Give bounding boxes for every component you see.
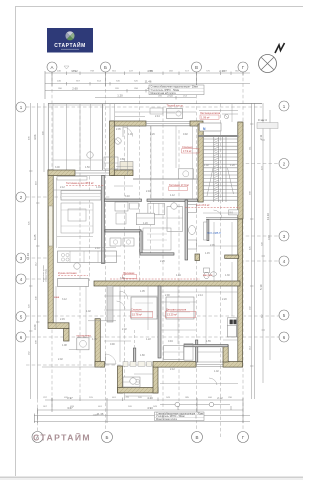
- mid section upper dim row: [115, 111, 196, 113]
- svg-text:11.46: 11.46: [97, 412, 104, 416]
- svg-text:0.90: 0.90: [110, 343, 115, 346]
- logo СТАРТАЙМ box: [47, 28, 93, 53]
- top dimension segment labels: [57, 71, 239, 98]
- stairs cut hatch strip: [214, 138, 219, 200]
- small marker near top bubble: [64, 66, 69, 69]
- left grid bubble 2: [16, 192, 26, 202]
- bedroom top closet: [150, 108, 163, 114]
- window bottom wall: [196, 362, 223, 367]
- left grid bubble 3: [16, 253, 26, 263]
- interior wall bottom mid vertical: [133, 348, 135, 362]
- svg-text:13.10: 13.10: [266, 213, 270, 220]
- left grid bubble 5: [16, 312, 26, 322]
- svg-text:2.14: 2.14: [198, 294, 203, 297]
- door tag circle 1: [115, 138, 121, 144]
- hall closet: [204, 222, 207, 240]
- svg-text:2.90: 2.90: [165, 294, 170, 297]
- svg-text:3.20: 3.20: [33, 324, 37, 330]
- door tag circle 4: [74, 263, 80, 269]
- right grid bubble 4: [279, 256, 289, 266]
- wall bottom-right corner: [223, 362, 243, 368]
- desk cluster room2: [115, 202, 128, 211]
- stairwell right wall: [238, 122, 243, 219]
- window top-left: [75, 171, 111, 176]
- right dimension segment labels: [250, 146, 271, 350]
- door swing below mid wall 2: [117, 301, 125, 309]
- svg-text:СТАРТАЙМ: СТАРТАЙМ: [33, 432, 91, 443]
- wall mid-top left vertical: [110, 121, 115, 176]
- svg-text:1.55: 1.55: [206, 340, 211, 343]
- roof outline line: [48, 103, 262, 105]
- svg-text:2.12: 2.12: [170, 368, 175, 371]
- top grid bubble Г: [238, 62, 248, 72]
- window left wall: [49, 206, 53, 246]
- svg-text:2.11: 2.11: [259, 134, 263, 140]
- interior wall vertical bottom rooms: [158, 286, 161, 358]
- svg-text:3.12: 3.12: [62, 298, 67, 301]
- stair stringer lines: [214, 137, 226, 202]
- svg-text:2.44: 2.44: [155, 115, 160, 118]
- red label living room: [66, 181, 104, 185]
- svg-text:Лестница клетка: Лестница клетка: [200, 111, 221, 115]
- toilet hall wc: [204, 268, 210, 273]
- bottom grid bubble Г: [238, 432, 249, 443]
- red label stairs top: [200, 111, 221, 115]
- tick marks clusters: [29, 72, 265, 419]
- wall left bottom corner step: [48, 323, 69, 329]
- stair head dim lines: [199, 110, 238, 112]
- right grid bubble 1: [279, 101, 289, 111]
- door tag circle 5: [130, 378, 136, 384]
- svg-text:17.9 м²: 17.9 м²: [183, 149, 192, 153]
- bedroom top bed: [167, 109, 183, 119]
- interior wall kitchen top: [133, 178, 198, 180]
- bottom grid bubble Б: [102, 432, 113, 443]
- svg-text:Б: Б: [106, 435, 109, 440]
- interior wall hall vertical: [207, 220, 209, 241]
- door swing bedroom top: [123, 127, 133, 137]
- svg-text:3.67: 3.67: [67, 406, 73, 410]
- extra faint furniture lines: [61, 197, 190, 313]
- hall label box: [229, 210, 239, 215]
- svg-text:3.05: 3.05: [120, 277, 125, 280]
- stairwell left wall: [198, 124, 203, 202]
- interior dimension strings: [53, 104, 238, 396]
- terrace edge line bottom-left: [42, 366, 100, 368]
- kitchen island: [58, 279, 89, 287]
- wall mid-top right part: [190, 121, 203, 126]
- svg-text:4.06: 4.06: [33, 134, 37, 140]
- svg-text:2.45: 2.45: [60, 318, 65, 321]
- wall left upper (terrace edge): [47, 103, 49, 171]
- svg-text:2.40: 2.40: [146, 190, 151, 193]
- right top small annotation: [257, 118, 278, 129]
- svg-text:сан узел: сан узел: [203, 274, 213, 277]
- svg-text:1.80: 1.80: [140, 354, 145, 357]
- bath fixtures room2: [110, 238, 121, 246]
- svg-text:1.20: 1.20: [117, 94, 123, 98]
- interior wall vestibule vertical: [196, 340, 198, 362]
- washbasin hall wc: [211, 272, 217, 276]
- svg-text:1.02: 1.02: [86, 310, 91, 313]
- svg-text:2.26: 2.26: [150, 133, 155, 136]
- svg-text:3.40: 3.40: [125, 195, 130, 198]
- bedroom 2 bed: [131, 297, 157, 319]
- svg-text:13.20 м²: 13.20 м²: [167, 313, 177, 317]
- furniture appliances top-left of kitchen: [104, 157, 118, 169]
- wall piece left of hall: [195, 254, 200, 261]
- svg-text:2.12: 2.12: [60, 186, 65, 189]
- furniture rug/table living room: [61, 203, 93, 233]
- svg-text:1.04: 1.04: [96, 186, 101, 189]
- svg-text:0.94: 0.94: [168, 340, 173, 343]
- interior wall horizontal hallway: [105, 199, 142, 201]
- tall cabinet vestibule: [184, 344, 193, 361]
- bottom grid bubble В: [192, 432, 203, 443]
- svg-text:Детская спальня: Детская спальня: [166, 308, 187, 312]
- red label hallway: [169, 183, 190, 190]
- svg-text:Спальня: Спальня: [182, 145, 193, 149]
- svg-text:1.30: 1.30: [225, 274, 230, 277]
- svg-text:В: В: [195, 435, 198, 440]
- grid dashed horizontals: [26, 107, 279, 365]
- bottom symbol circle 2: [209, 402, 214, 407]
- svg-text:1.02: 1.02: [214, 370, 219, 373]
- bedroom 3 bed: [166, 297, 194, 319]
- stairs treads: [203, 139, 238, 200]
- left dimension segment labels: [28, 131, 47, 355]
- tall cabinets right wall: [230, 320, 233, 325]
- wardrobe right of living: [167, 207, 183, 232]
- bed room2: [136, 213, 154, 225]
- porch bench: [123, 377, 140, 387]
- red dashed mid line: [110, 278, 200, 280]
- door swing hall to stairs: [214, 210, 223, 218]
- top annotation box: [149, 85, 204, 95]
- svg-text:1.20: 1.20: [143, 222, 148, 225]
- svg-text:2.20: 2.20: [222, 298, 227, 301]
- svg-text:1.45: 1.45: [205, 252, 210, 255]
- interior wall room2 horizontal low: [140, 253, 174, 255]
- svg-text:4.20: 4.20: [147, 396, 153, 400]
- svg-text:2.05: 2.05: [210, 244, 215, 247]
- wall bathroom bottom (thin): [206, 218, 238, 220]
- svg-text:постирочная: постирочная: [77, 335, 92, 338]
- svg-text:СТАРТАЙМ: СТАРТАЙМ: [54, 41, 86, 49]
- stairs direction arrows: [207, 168, 213, 196]
- bottom annotation box: [155, 412, 205, 421]
- svg-text:3.00: 3.00: [55, 166, 60, 169]
- red label kitchen: [58, 271, 88, 275]
- bottom symbol circle 1: [175, 402, 180, 407]
- svg-text:11.46: 11.46: [145, 80, 152, 84]
- right grid bubble 6: [279, 332, 289, 342]
- svg-text:1.05: 1.05: [140, 290, 145, 293]
- logo text: [54, 41, 86, 50]
- sheet top border: [15, 6, 303, 8]
- red label bedroom 2: [131, 308, 153, 318]
- svg-text:0 зак 4: 0 зак 4: [258, 118, 267, 122]
- dining table: [143, 228, 171, 250]
- washer bottom-left: [77, 338, 89, 350]
- shaft wall below mid: [107, 286, 113, 322]
- svg-text:1.18: 1.18: [128, 133, 133, 136]
- wall top-left horizontal right part: [111, 170, 133, 176]
- interior wall vertical center: [102, 176, 105, 264]
- wall stub right bottom: [223, 345, 228, 362]
- furniture TV unit: [57, 177, 87, 181]
- wall vertical center-bottom (kitchen right): [95, 319, 100, 367]
- appliance in top room: [178, 169, 193, 179]
- top grid bubble Б: [101, 62, 111, 72]
- bottom dimension segment labels: [43, 397, 232, 416]
- door swing hall bottom: [209, 378, 217, 385]
- svg-text:1.44: 1.44: [176, 274, 181, 277]
- grid dashed verticals: [38, 72, 244, 437]
- bottom dimension labels: [67, 396, 223, 416]
- svg-text:1.12: 1.12: [170, 194, 175, 197]
- svg-text:1.09 м²: 1.09 м²: [201, 115, 210, 119]
- svg-text:Б: Б: [104, 65, 107, 70]
- entrance door leaf: [105, 363, 116, 365]
- mid section upper left verticals: [109, 104, 111, 121]
- svg-text:15.78 м²: 15.78 м²: [132, 313, 142, 317]
- door tag circle 2: [87, 152, 93, 158]
- top dimension ticks: [45, 71, 243, 99]
- svg-text:Гостиная-кухня 38.5 м²: Гостиная-кухня 38.5 м²: [66, 181, 94, 185]
- interior wall bathroom left: [185, 200, 188, 260]
- interior wall vestibule horizontal: [184, 345, 228, 347]
- svg-text:А: А: [50, 65, 53, 70]
- svg-text:1.20: 1.20: [230, 164, 235, 167]
- stair landing dark edge: [199, 135, 239, 137]
- furniture sofa living room: [61, 191, 101, 201]
- svg-text:Спальня: Спальня: [131, 308, 142, 312]
- porch left wall: [118, 366, 123, 393]
- wall bottom horizontal left of porch: [95, 362, 105, 368]
- WALLS: [48, 103, 243, 393]
- left grid bubble 1: [16, 102, 26, 112]
- svg-text:стяжка 50мм: стяжка 50мм: [46, 268, 48, 282]
- red label bedroom top: [182, 145, 200, 153]
- door tag circle 3: [171, 203, 177, 209]
- bathroom fixtures: [188, 205, 197, 213]
- svg-text:зона: зона: [54, 296, 60, 299]
- svg-text:2.02: 2.02: [122, 328, 127, 331]
- shelf room2: [148, 203, 165, 215]
- svg-text:1.70: 1.70: [124, 396, 129, 399]
- svg-text:2.12: 2.12: [217, 396, 223, 400]
- svg-text:2.60: 2.60: [72, 87, 78, 91]
- svg-text:1.02: 1.02: [204, 164, 209, 167]
- svg-text:2.25: 2.25: [160, 260, 165, 263]
- red label small mid: [123, 272, 137, 278]
- bottom dimension lines: [34, 400, 250, 422]
- svg-text:холл 8.6 м²: холл 8.6 м²: [196, 203, 210, 207]
- svg-text:В: В: [195, 65, 198, 70]
- svg-text:2.05: 2.05: [116, 128, 121, 131]
- top grid bubble А: [47, 62, 57, 72]
- svg-text:1.08: 1.08: [62, 344, 67, 347]
- svg-text:6.25: 6.25: [33, 234, 37, 240]
- right grid bubble 5: [279, 310, 289, 320]
- porch bottom wall: [118, 388, 159, 393]
- top dimension lines: [45, 73, 250, 98]
- terrace divider lines: [66, 104, 68, 170]
- right grid bubble 2: [279, 159, 289, 169]
- svg-text:0.80: 0.80: [120, 158, 125, 161]
- stair tag circle: [224, 114, 228, 118]
- wall mid horizontal main: [94, 281, 240, 286]
- bottom dimension ticks: [35, 398, 244, 423]
- north arrow: [259, 43, 285, 73]
- red label corridor box: [200, 115, 219, 119]
- logo emblem: [65, 31, 74, 40]
- scattered tiny dimension texts: [55, 115, 235, 399]
- stair landing box: [200, 123, 222, 131]
- sheet left border: [15, 7, 17, 477]
- svg-text:1.50: 1.50: [85, 166, 90, 169]
- wall right perimeter: [238, 219, 243, 366]
- svg-text:4.93: 4.93: [147, 406, 153, 410]
- bottom viewport divider: [0, 477, 303, 479]
- right grid bubble 3: [279, 231, 289, 241]
- wall bottom horizontal right of porch: [153, 362, 196, 368]
- left grid bubble 4: [16, 274, 26, 284]
- porch right wall: [153, 366, 158, 393]
- svg-text:Тёплый пол эл.: Тёплый пол эл.: [167, 105, 184, 108]
- top dimension labels: [72, 69, 225, 98]
- red label bedroom 3: [166, 308, 196, 318]
- interior wall room2 vertical: [140, 231, 142, 254]
- wall mid-top horizontal: [110, 121, 146, 126]
- svg-text:Монолитная плита: Монолитная плита: [156, 418, 177, 421]
- svg-text:5.10: 5.10: [259, 284, 263, 290]
- door swing below mid wall 1: [120, 291, 128, 299]
- right dimension columns: [252, 103, 271, 399]
- red dashed hall line: [185, 207, 240, 209]
- furniture kitchen top-left column: [120, 162, 133, 170]
- interior wall room2 horizontal: [105, 230, 141, 232]
- window mid-top: [146, 122, 190, 126]
- kitchen counter: [58, 251, 117, 263]
- svg-text:12.93: 12.93: [26, 253, 30, 260]
- svg-text:Монолитная ж/б плита: Монолитная ж/б плита: [151, 92, 177, 95]
- left grid bubble 6: [16, 332, 26, 342]
- svg-text:Гостиная 17.9 м²: Гостиная 17.9 м²: [169, 183, 189, 187]
- left dimension labels: [26, 134, 37, 330]
- fixtures on bottom wall row: [123, 362, 128, 366]
- wall left perimeter: [48, 170, 53, 323]
- wall top-left horizontal: [48, 170, 75, 176]
- svg-text:Кухня-гостиная: Кухня-гостиная: [58, 271, 77, 275]
- wall piece hall bottom: [225, 255, 239, 258]
- bottom grid bubble А: [32, 432, 43, 443]
- svg-text:1.22: 1.22: [146, 338, 151, 341]
- top grid bubble В: [192, 62, 202, 72]
- svg-text:Прихожая: Прихожая: [123, 272, 135, 275]
- svg-text:0.92: 0.92: [183, 133, 188, 136]
- right dimension labels: [259, 134, 270, 290]
- left dimension columns: [31, 103, 45, 399]
- svg-text:2.97: 2.97: [67, 396, 73, 400]
- cabinet above bottom wall: [164, 346, 184, 360]
- svg-text:2.02: 2.02: [58, 358, 63, 361]
- svg-text:1.15: 1.15: [92, 338, 97, 341]
